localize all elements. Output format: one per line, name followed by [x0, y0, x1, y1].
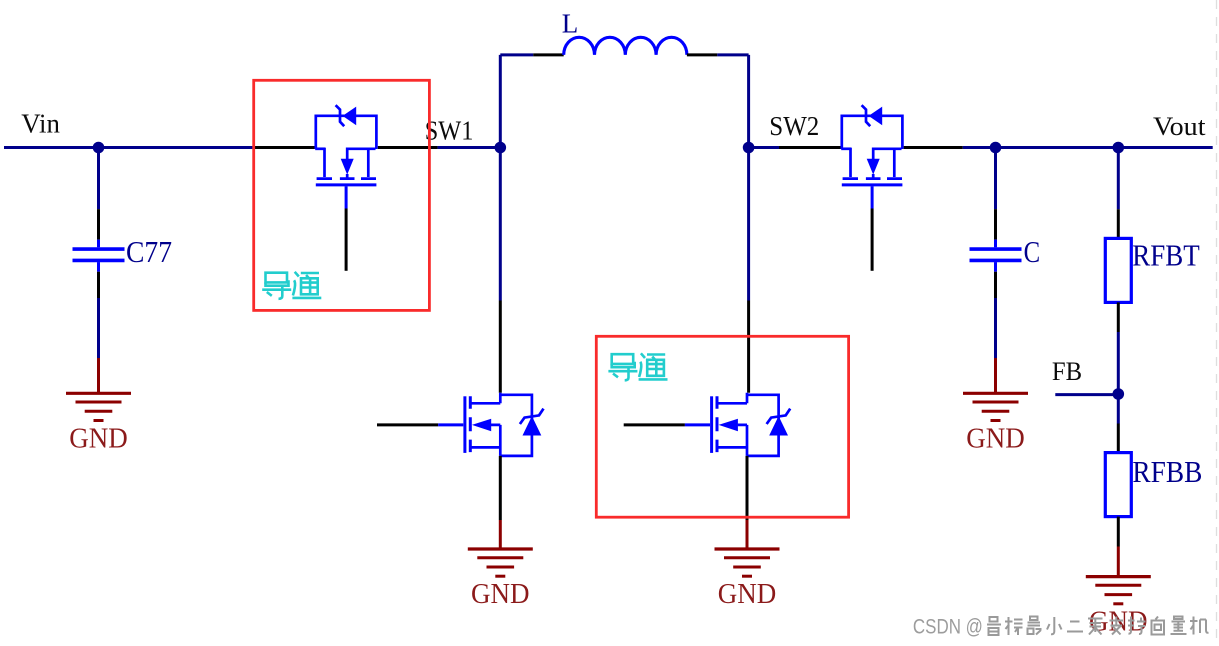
ground GND under RFBB [1086, 577, 1151, 638]
capacitor C [970, 209, 1022, 298]
svg-text:SW2: SW2 [769, 111, 819, 141]
node Vout-RFBT junction [1113, 142, 1125, 154]
wire RFBT top pin (black) [1117, 209, 1120, 238]
wire RFBT branch (navy) [1117, 148, 1120, 210]
wire pin segment left of Q1 (black) [253, 146, 315, 149]
svg-text:C: C [1024, 234, 1041, 269]
transistor Q3 low-side NMOS left [377, 393, 544, 548]
wire Vout rail (navy) [963, 146, 1213, 149]
resistor RFBB [1105, 453, 1131, 517]
wire inductor left pin (black) [533, 53, 564, 56]
wire SW1 riser up (navy) [499, 55, 502, 148]
wire pin segment right of Q2 (black) [904, 146, 963, 149]
wire top rail right (navy) [717, 53, 748, 56]
resistor RFBT [1105, 238, 1131, 302]
ground GND under C77 [66, 393, 131, 454]
node Vin junction [93, 142, 105, 154]
wire pin segment right of Q1 (black) [378, 146, 438, 149]
wire SW2 riser (navy) [747, 55, 750, 148]
node SW1 junction [495, 142, 507, 154]
wire C to ground (navy) [994, 298, 997, 358]
wire to SW1 node (navy) [438, 146, 500, 149]
svg-text:RFBT: RFBT [1132, 238, 1200, 273]
wire pin segment left of Q2 (black) [779, 146, 842, 149]
annotation 导通 (on) for Q1 [262, 272, 321, 299]
red box around Q1 [254, 80, 430, 310]
svg-text:RFBB: RFBB [1132, 454, 1202, 489]
ground GND under C [963, 393, 1028, 454]
wire inductor right pin (black) [687, 53, 717, 56]
wire from SW2 node (navy) [749, 146, 779, 149]
wire RFBB bottom pin (black) [1117, 517, 1120, 547]
wire top rail left (navy) [500, 53, 533, 56]
wire RFBT bottom pin (black) [1117, 302, 1120, 332]
wire C77 to ground (navy) [97, 298, 100, 358]
wire C branch (navy) [994, 148, 997, 210]
svg-text:Vin: Vin [21, 109, 60, 139]
svg-text:L: L [562, 9, 579, 39]
wire Q3 drain pin (black) [499, 301, 502, 393]
wire RFBB ground stub (dark red) [1117, 547, 1120, 577]
wire C77 branch (navy) [97, 148, 100, 210]
svg-text:C77: C77 [126, 235, 172, 269]
svg-text:SW1: SW1 [425, 116, 474, 146]
transistor Q1 high-side PMOS at SW1 [315, 105, 376, 271]
page edge faint line [1216, 0, 1218, 646]
wire SW1 node down (navy) [499, 148, 502, 301]
red box around Q4 [596, 336, 848, 517]
wire C ground stub (dark red) [994, 358, 997, 393]
wire RFBB top pin (black) [1117, 424, 1120, 453]
inductor L [564, 37, 687, 55]
ground GND under Q3 [468, 549, 533, 610]
wire C77 ground stub (dark red) [97, 358, 100, 393]
wire Vin rail (navy) [4, 146, 253, 149]
ground GND under Q4 [715, 549, 780, 610]
node SW2 junction [743, 142, 755, 154]
watermark CSDN [913, 616, 1209, 639]
wire FB node down (navy) [1117, 394, 1120, 424]
wire RFBT to FB node (navy) [1117, 332, 1120, 394]
svg-text:CSDN @: CSDN @ [913, 616, 983, 639]
svg-text:Vout: Vout [1153, 112, 1206, 141]
node Vout-C junction [990, 142, 1002, 154]
wire Q4 drain pin (black) [747, 301, 750, 393]
annotation 导通 (on) for Q4 [608, 353, 667, 380]
transistor Q2 high-side PMOS at SW2 [841, 105, 902, 271]
wire FB stub (navy) [1055, 393, 1118, 396]
transistor Q4 low-side NMOS right [624, 393, 791, 548]
node FB junction [1113, 388, 1125, 400]
wire SW2 node down (navy) [747, 148, 750, 301]
capacitor C77 [73, 209, 125, 298]
svg-text:FB: FB [1052, 357, 1082, 386]
